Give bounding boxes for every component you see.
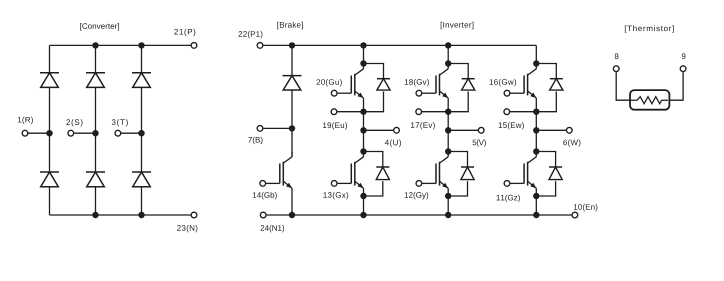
transistor Q1: [337, 64, 363, 112]
wire 3(T) input: [121, 132, 142, 134]
wire converter leg 2 middle: [95, 87, 97, 172]
terminal 17(Ev): [416, 109, 422, 115]
terminal 15(Ew): [504, 109, 510, 115]
junction N bus / leg T: [138, 212, 144, 218]
diode D4: [40, 172, 59, 187]
transistor Q6: [510, 152, 536, 197]
terminal 18(Gv): [416, 90, 422, 96]
wire 19(Eu) lead: [337, 111, 364, 113]
wire B terminal: [263, 127, 292, 129]
wire brake diode to node B: [291, 90, 293, 128]
junction Q1 emitter: [360, 109, 366, 115]
junction N bus / leg S: [92, 212, 98, 218]
terminal 4(U): [394, 127, 400, 133]
transistor Q4: [337, 152, 363, 197]
junction Q6 collector: [533, 148, 539, 154]
junction node T: [138, 130, 144, 136]
junction P bus / leg S: [92, 42, 98, 48]
wire output lead 4(U): [364, 129, 394, 131]
wire output lead 6(W): [536, 129, 566, 131]
section label [Converter]: [80, 23, 119, 30]
label 24(N1): [261, 225, 285, 232]
terminal 5(V): [478, 127, 484, 133]
label 4(U): [385, 140, 401, 147]
terminal 2(S): [68, 130, 74, 136]
section label [Inverter]: [441, 22, 474, 29]
wire Q5 emitter to N1 bus: [447, 196, 449, 215]
junction P1 bus / leg U: [360, 42, 366, 48]
diode D6: [132, 172, 151, 187]
junction node V: [445, 127, 451, 133]
diode D5: [86, 172, 105, 187]
terminal 22(P1): [257, 43, 263, 49]
wire converter leg 3 bottom: [141, 187, 143, 215]
wire converter leg 3 top: [141, 45, 143, 72]
junction Q4 emitter: [360, 193, 366, 199]
label 5(V): [473, 139, 486, 146]
wire P1 bus: [263, 44, 536, 46]
label 17(Ev): [411, 122, 435, 129]
terminal 23(N): [191, 212, 197, 218]
wire emitter to output node W: [535, 112, 537, 131]
terminal 7(B): [257, 126, 263, 132]
wire 15(Ew) lead: [510, 111, 537, 113]
label 18(Gv): [405, 79, 429, 86]
diode D8: [364, 64, 391, 112]
junction Q5 emitter: [445, 193, 451, 199]
wire converter leg 1 middle: [49, 87, 51, 172]
label 9: [682, 53, 686, 59]
junction N1 bus / brake leg: [289, 212, 295, 218]
junction Q3 emitter: [533, 109, 539, 115]
junction P1 bus / brake leg: [289, 42, 295, 48]
wire converter leg 1 bottom: [49, 187, 51, 215]
terminal 24(N1): [260, 212, 266, 218]
junction node W: [533, 127, 539, 133]
junction Q3 collector: [533, 60, 539, 66]
diode D2: [86, 73, 105, 88]
terminal 20(Gu): [331, 90, 337, 96]
junction N1 bus / leg V: [445, 212, 451, 218]
junction Q5 collector: [445, 148, 451, 154]
label 21(P): [174, 29, 195, 36]
label 2(S): [66, 119, 82, 126]
label 12(Gy): [405, 192, 428, 199]
label 14(Gb): [253, 192, 277, 199]
diode D1: [40, 73, 59, 88]
wire output to Q4 collector: [363, 130, 365, 151]
wire converter N bus: [50, 214, 192, 216]
label 7(B): [248, 137, 262, 144]
junction Q2 collector: [445, 60, 451, 66]
wire output to Q5 collector: [447, 130, 449, 151]
wire emitter to output node U: [363, 112, 365, 131]
junction N1 bus / leg W: [533, 212, 539, 218]
wire emitter to output node V: [447, 112, 449, 131]
label 16(Gw): [490, 79, 516, 86]
diode D10: [536, 64, 563, 112]
transistor Q3: [510, 64, 536, 112]
junction node S: [92, 130, 98, 136]
terminal 9: [680, 66, 686, 72]
label 23(N): [177, 225, 197, 232]
label 3(T): [112, 119, 128, 126]
diode D12: [448, 152, 474, 197]
terminal 21(P): [191, 43, 197, 49]
label 15(Ew): [499, 122, 524, 129]
junction Q6 emitter: [533, 193, 539, 199]
junction node R: [46, 130, 52, 136]
junction N1 bus / leg U: [360, 212, 366, 218]
diode D13: [536, 152, 562, 197]
terminal 10(En): [572, 212, 578, 218]
terminal 16(Gw): [504, 90, 510, 96]
label 10(En): [574, 204, 597, 211]
junction Q1 collector: [360, 60, 366, 66]
diode D11: [364, 152, 390, 197]
terminal 3(T): [115, 130, 121, 136]
wire thermistor left lead: [616, 72, 630, 101]
wire output to Q6 collector: [535, 130, 537, 151]
terminal 6(W): [566, 127, 572, 133]
junction P bus / leg T: [138, 42, 144, 48]
wire converter leg 2 bottom: [95, 187, 97, 215]
terminal 13(Gx): [331, 181, 337, 187]
section label [Thermistor]: [625, 25, 674, 32]
label 20(Gu): [317, 79, 342, 86]
terminal 8: [613, 66, 619, 72]
label 22(P1): [239, 31, 263, 38]
wire leg V top: [447, 45, 449, 63]
label 19(Eu): [323, 122, 347, 129]
junction node B: [289, 125, 295, 131]
junction P1 bus / leg V: [445, 42, 451, 48]
wire brake leg top: [291, 45, 293, 75]
junction node U: [360, 127, 366, 133]
label 8: [615, 53, 619, 59]
wire leg W top: [535, 45, 537, 63]
terminal 12(Gy): [416, 181, 422, 187]
terminal 19(Eu): [331, 109, 337, 115]
wire leg U top: [363, 45, 365, 63]
transistor Q5: [422, 152, 448, 197]
terminal 11(Gz): [504, 181, 510, 187]
wire thermistor right lead: [669, 72, 683, 101]
wire 17(Ev) lead: [422, 111, 449, 113]
label 6(W): [563, 139, 580, 146]
terminal 14(Gb): [260, 181, 266, 187]
wire converter leg 2 top: [95, 45, 97, 72]
wire output lead 5(V): [448, 129, 478, 131]
wire Q4 emitter to N1 bus: [363, 196, 365, 215]
wire Q6 emitter to N1 bus: [535, 196, 537, 215]
transistor Q7 (brake IGBT): [266, 128, 292, 215]
wire 2(S) input: [74, 132, 96, 134]
diode D7: [283, 76, 302, 90]
terminal 1(R): [22, 130, 28, 136]
wire converter P bus: [50, 44, 192, 46]
label 11(Gz): [497, 195, 520, 202]
section label [Brake]: [277, 22, 302, 29]
wire converter leg 3 middle: [141, 87, 143, 172]
diode D3: [132, 73, 151, 88]
thermistor TH1: [630, 90, 669, 110]
wire N1 bus: [266, 214, 572, 216]
diode D9: [448, 64, 475, 112]
transistor Q2: [422, 64, 448, 112]
label 1(R): [18, 117, 33, 124]
label 13(Gx): [323, 192, 348, 199]
junction Q2 emitter: [445, 109, 451, 115]
wire converter leg 1 top: [49, 45, 51, 72]
junction Q4 collector: [360, 148, 366, 154]
wire 1(R) input: [28, 132, 50, 134]
